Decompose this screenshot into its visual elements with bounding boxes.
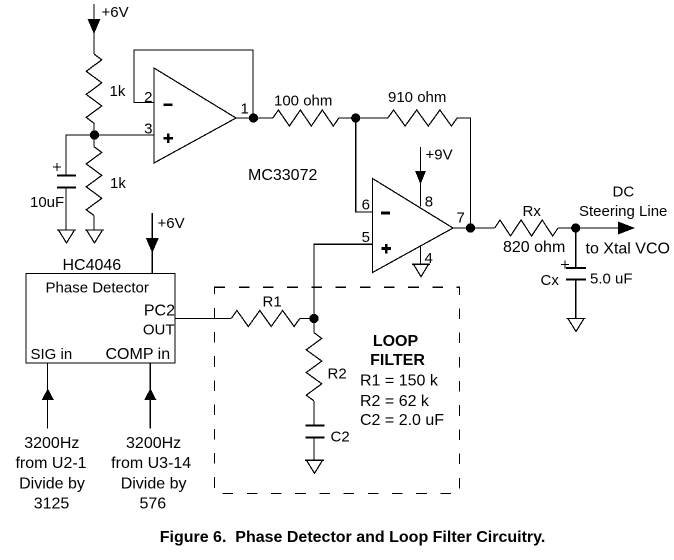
label C2 [331,429,350,446]
wire 910 ohm feedback to U2 output [457,118,470,228]
pin label 1 (U1 output) [241,101,249,118]
svg-text:DC: DC [613,184,635,201]
svg-text:C2: C2 [331,429,350,446]
label DC [613,184,635,201]
svg-text:+9V: +9V [426,147,453,164]
svg-text:910 ohm: 910 ohm [388,89,446,106]
pin label 6 (U2 inverting) [362,197,370,214]
svg-text:Cx: Cx [541,272,560,289]
svg-text:OUT: OUT [143,322,175,339]
svg-text:1k: 1k [110,83,126,100]
label COMP in [106,346,171,363]
label R2 = 62 k [360,393,430,410]
label FILTER [370,352,425,369]
resistor R1 [231,311,300,327]
wire SIG in input [42,363,54,429]
wire COMP in input [144,363,156,429]
svg-text:Figure 6. Phase Detector and: Figure 6. Phase Detector and Loop Filter… [160,529,546,546]
arrow DC steering line [618,222,635,235]
wire U2 pin 4 to ground [420,247,422,265]
label R2 [328,366,347,383]
svg-text:R1 = 150 k: R1 = 150 k [360,373,439,390]
pin label 3 (U1 non-inverting) [144,121,152,138]
pin label 2 (U1 inverting) [144,89,152,106]
wire node B to 910 ohm [356,117,388,119]
pin label 4 (U2 V-) [425,250,433,267]
label HC4046 [63,257,122,274]
label to Xtal VCO [586,241,670,258]
svg-text:from U2-1: from U2-1 [15,455,86,472]
node B junction dot [351,113,360,122]
label 820 ohm [503,239,565,256]
svg-text:LOOP: LOOP [373,333,419,350]
label MC33072 [248,167,317,184]
wire C2 to ground [313,438,315,461]
svg-text:2: 2 [144,89,152,106]
capacitor Cx plus sign [561,261,569,269]
svg-text:576: 576 [139,496,166,513]
label SIG in [31,346,73,363]
label +9V [426,147,453,164]
svg-text:Steering Line: Steering Line [579,203,667,220]
pin label 5 (U2 non-inverting) [362,229,370,246]
capacitor 10uF [57,176,76,188]
svg-text:MC33072: MC33072 [248,167,317,184]
ground (below 10uF) [57,230,76,243]
wire node E to U2 pin 5 [314,244,373,318]
svg-text:1: 1 [241,101,249,118]
node D junction dot [571,223,580,232]
resistor R2 [306,333,322,401]
capacitor Cx [566,268,586,279]
resistor Rx [495,220,558,236]
svg-text:R1: R1 [263,294,282,311]
wire 1k lower to ground [93,216,95,231]
capacitor C2 [306,425,325,437]
pin label 8 (U2 V+) [425,194,433,211]
svg-text:7: 7 [457,210,465,227]
label 3200Hz from U2-1 Divide by 3125 [15,435,86,513]
svg-text:3125: 3125 [34,496,70,513]
wire Cx to ground [575,279,577,318]
resistor 910 ohm [388,110,457,126]
wire Rx to node D [558,227,576,229]
svg-text:3200Hz: 3200Hz [126,435,181,452]
svg-text:R2 = 62 k: R2 = 62 k [360,393,430,410]
label LOOP [373,333,419,350]
label +6V (left rail) [102,4,129,21]
label OUT [143,322,175,339]
svg-text:100 ohm: 100 ohm [274,93,332,110]
svg-text:5.0 uF: 5.0 uF [590,271,633,288]
svg-text:COMP in: COMP in [106,346,171,363]
svg-text:+6V: +6V [158,215,185,232]
label Steering Line [579,203,667,220]
op-amp U1 (MC33072 section A) [154,68,236,163]
ground (below lower 1k) [85,230,104,243]
svg-text:Rx: Rx [523,203,542,220]
resistor 100 ohm [273,110,339,126]
label 100 ohm [274,93,332,110]
svg-text:1k: 1k [110,175,126,192]
wire 100 ohm to node B [339,117,356,119]
capacitor C 10uF plus sign [53,163,61,171]
wire R2 to C2 [313,401,315,426]
svg-text:R2: R2 [328,366,347,383]
wire node A left to capacitor [66,135,94,176]
svg-text:Phase Detector: Phase Detector [46,280,149,297]
label 1k (lower) [110,175,126,192]
power +6V supply (left rail) [88,4,101,54]
wire U2 output [452,227,471,229]
wire junction to 100 ohm [254,117,273,119]
wire resistor to node A [93,123,95,135]
svg-text:FILTER: FILTER [370,352,425,369]
svg-text:from U3-14: from U3-14 [111,455,191,472]
wire node E to R2 [313,319,315,333]
power +9V supply [415,147,426,207]
svg-text:8: 8 [425,194,433,211]
label C2 = 2.0 uF [360,412,444,429]
svg-text:3200Hz: 3200Hz [24,435,79,452]
label 3200Hz from U3-14 Divide by 576 [111,435,191,513]
svg-text:Divide by: Divide by [19,475,85,492]
label Cx [541,272,560,289]
svg-text:6: 6 [362,197,370,214]
ground (U2 pin 4) [412,264,430,277]
label R1 = 150 k [360,373,439,390]
pin label 7 (U2 output) [457,210,465,227]
label +6V (HC4046) [158,215,185,232]
label 1k (upper) [110,83,126,100]
label 10uF [30,194,64,211]
wire node D to Cx [575,228,577,268]
resistor 1k (lower) [86,147,102,216]
label 910 ohm [388,89,446,106]
caption Figure 6 [160,529,546,546]
svg-text:5: 5 [362,229,370,246]
svg-text:3: 3 [144,121,152,138]
ground (below Cx) [567,319,586,332]
label Phase Detector [46,280,149,297]
wire node D to DC steering line arrow [576,227,618,229]
svg-text:820 ohm: 820 ohm [503,239,565,256]
wire node C to Rx [471,227,495,229]
wire U1 output [236,117,254,119]
op-amp U2 (MC33072 section B) [373,179,454,273]
label Rx [523,203,542,220]
node U1 output junction dot [249,113,258,122]
svg-text:PC2: PC2 [144,303,175,320]
svg-text:+6V: +6V [102,4,129,21]
wire capacitor to ground [65,188,67,231]
wire U1 feedback loop [134,50,253,118]
ground (below C2) [305,460,324,473]
label 5.0 uF [590,271,633,288]
wire node B to U2 pin 6 [356,118,373,212]
svg-text:C2 = 2.0 uF: C2 = 2.0 uF [360,412,444,429]
label R1 [263,294,282,311]
node A junction dot [90,130,99,139]
resistor 1k (upper) [86,54,102,123]
IC HC4046 phase detector box [26,274,175,364]
wire node A to op-amp pin 3 [94,134,154,136]
label PC2 [144,303,175,320]
node E junction dot [309,314,318,323]
power +6V supply (HC4046) [146,213,159,274]
node C junction dot (U2 output) [466,223,475,232]
loop filter dashed boundary box [215,287,460,493]
wire PC2 OUT to R1 [175,318,231,320]
svg-text:HC4046: HC4046 [63,257,122,274]
svg-text:SIG in: SIG in [31,346,73,363]
wire node A down to 1k lower [93,135,95,147]
wire R1 to node E [300,318,314,320]
svg-text:10uF: 10uF [30,194,64,211]
svg-text:to Xtal VCO: to Xtal VCO [586,241,670,258]
svg-text:Divide by: Divide by [121,475,187,492]
